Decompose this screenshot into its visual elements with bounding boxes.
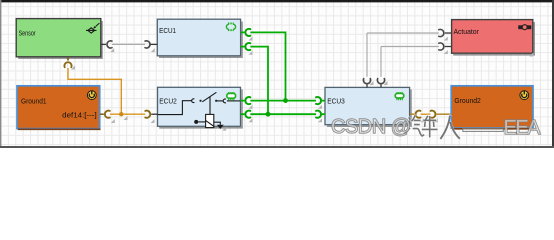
svg-text:ECU1: ECU1 bbox=[159, 26, 176, 35]
svg-text:ECU2: ECU2 bbox=[159, 97, 177, 106]
svg-text:Actuator: Actuator bbox=[454, 27, 480, 36]
svg-text:Sensor: Sensor bbox=[19, 29, 36, 38]
svg-text:EEA: EEA bbox=[504, 117, 542, 139]
svg-text:ECU3: ECU3 bbox=[327, 96, 345, 105]
svg-text:CSDN @: CSDN @ bbox=[331, 116, 411, 138]
svg-text:def14:[---]: def14:[---] bbox=[62, 112, 97, 119]
svg-text:Ground2: Ground2 bbox=[454, 96, 480, 105]
svg-text:Ground1: Ground1 bbox=[21, 97, 47, 106]
